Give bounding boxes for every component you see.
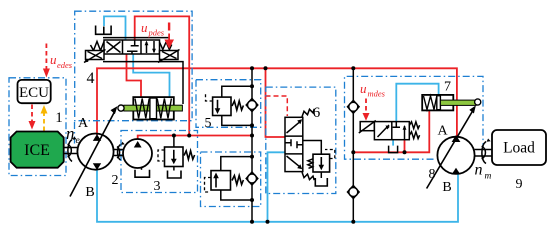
svg-text:Load: Load bbox=[503, 140, 535, 157]
svg-text:u: u bbox=[360, 81, 367, 96]
svg-text:mdes: mdes bbox=[368, 89, 386, 99]
svg-text:ICE: ICE bbox=[24, 142, 50, 159]
svg-text:2: 2 bbox=[112, 173, 119, 188]
svg-text:A: A bbox=[78, 116, 89, 131]
svg-text:1: 1 bbox=[55, 110, 63, 126]
svg-text:u: u bbox=[141, 20, 148, 35]
svg-text:4: 4 bbox=[87, 70, 95, 87]
svg-text:n: n bbox=[66, 124, 75, 143]
svg-text:3: 3 bbox=[154, 179, 161, 194]
svg-text:m: m bbox=[485, 172, 492, 182]
svg-text:7: 7 bbox=[444, 80, 451, 95]
svg-text:8: 8 bbox=[429, 167, 436, 182]
svg-text:9: 9 bbox=[516, 177, 523, 192]
svg-text:6: 6 bbox=[313, 105, 321, 121]
svg-text:edes: edes bbox=[57, 60, 73, 70]
svg-text:B: B bbox=[442, 180, 451, 195]
svg-text:ECU: ECU bbox=[19, 85, 49, 101]
svg-text:B: B bbox=[85, 185, 94, 200]
svg-text:pdes: pdes bbox=[148, 28, 165, 38]
svg-text:n: n bbox=[475, 162, 483, 179]
svg-text:u: u bbox=[50, 52, 57, 67]
svg-text:A: A bbox=[437, 124, 448, 139]
svg-text:5: 5 bbox=[205, 116, 212, 131]
